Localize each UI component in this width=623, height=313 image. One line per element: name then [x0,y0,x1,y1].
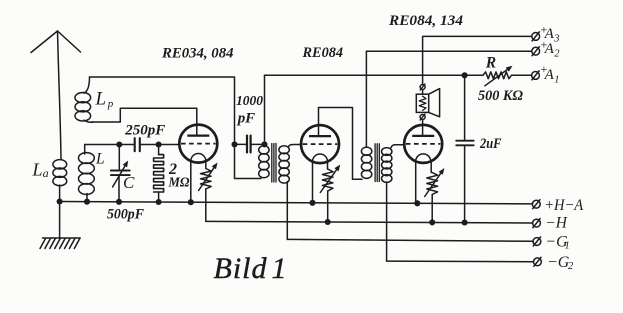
svg-text:a: a [43,166,49,180]
svg-text:1: 1 [565,241,570,252]
svg-text:1000: 1000 [236,94,263,109]
svg-text:R: R [485,54,496,71]
svg-text:L: L [95,150,105,167]
svg-text:−H: −H [545,215,567,232]
svg-text:2: 2 [554,49,560,60]
svg-text:250pF: 250pF [124,122,165,138]
svg-text:500 KΩ: 500 KΩ [478,88,523,104]
svg-text:RE084, 134: RE084, 134 [388,13,464,29]
svg-text:+H−A: +H−A [544,197,583,214]
svg-text:1: 1 [272,252,287,285]
svg-text:RE084: RE084 [302,45,343,61]
svg-text:3: 3 [553,34,559,45]
svg-text:A: A [544,41,555,57]
svg-text:500pF: 500pF [107,207,144,223]
svg-text:A: A [544,67,555,83]
svg-text:p: p [107,98,114,110]
svg-text:L: L [32,159,43,179]
svg-text:−G: −G [547,254,570,271]
svg-text:RE034, 084: RE034, 084 [161,46,234,62]
svg-text:pF: pF [236,111,255,127]
svg-text:L: L [95,89,107,110]
svg-text:2uF: 2uF [479,136,502,152]
svg-text:2: 2 [568,261,574,272]
svg-text:Bild: Bild [214,252,268,285]
svg-text:MΩ: MΩ [168,176,190,191]
svg-text:1: 1 [554,75,559,86]
svg-text:C: C [123,173,135,192]
